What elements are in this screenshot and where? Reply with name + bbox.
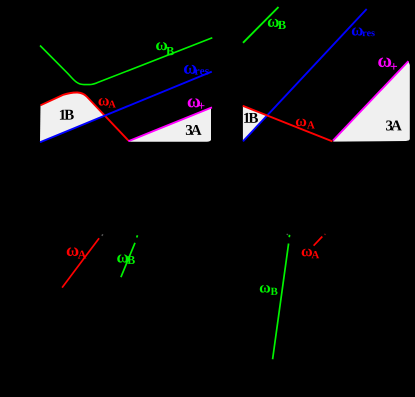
label 1B (a) [60, 110, 74, 120]
line omega_B tip dot (d) green [288, 235, 290, 237]
line omega_B (d) green [273, 244, 289, 360]
line omega_plus (a) magenta [128, 107, 212, 141]
label omega_B (b) [268, 19, 279, 27]
label 3A (b) [386, 120, 402, 130]
region 3A white fill (b) [333, 61, 410, 141]
line omega_B tip segment (c) green [136, 235, 139, 237]
line omega_res (b) blue [243, 9, 367, 141]
label omega_A (d) [302, 249, 312, 257]
label omega_plus (a) [188, 98, 200, 107]
tip dot red (d) [324, 233, 327, 236]
region 3A white fill [128, 108, 211, 142]
tip dot (c) grey [102, 234, 103, 236]
label omega_A (a) [98, 98, 108, 106]
line omega_A (c) red [62, 238, 99, 287]
line omega_A (d) red [314, 237, 323, 246]
label omega_B (d) [260, 285, 270, 293]
line omega_B (b) green [243, 7, 279, 43]
label omega_res (b) [352, 27, 363, 35]
tip dot (d) grey [286, 234, 289, 235]
label omega_A (b) [296, 119, 306, 127]
label omega_B (c) [117, 254, 128, 262]
line omega_plus (b) magenta [333, 61, 408, 140]
label 1B (b) [244, 113, 258, 123]
curve omega_B (a) green [40, 38, 212, 85]
label 3A (a) [186, 125, 202, 135]
line omega_B (c) green [121, 243, 135, 277]
line omega_res (a) blue [40, 72, 212, 143]
label omega_A (c) [67, 247, 79, 256]
region 1B white fill [40, 92, 105, 142]
curve omega_A (a) red [41, 92, 129, 140]
line omega_A (b) red [243, 106, 333, 142]
region 1B white fill (b) [243, 106, 267, 142]
label omega_B (a) [156, 42, 167, 50]
label omega_plus (b) [378, 57, 391, 67]
label omega_res (a) [184, 65, 196, 74]
